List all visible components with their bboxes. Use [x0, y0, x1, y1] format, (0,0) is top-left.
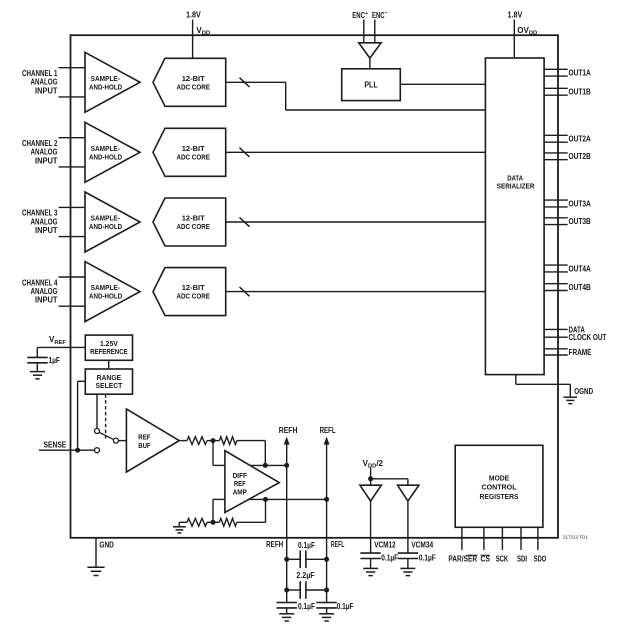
switch throw contact sense — [95, 448, 100, 453]
wire ground to R3 — [179, 521, 187, 523]
capacitor 0.1uF REFL to gnd — [316, 603, 336, 608]
wire ENC+ down — [363, 20, 365, 43]
MODE CONTROL REGISTERS box — [455, 445, 543, 527]
svg-text:CHANNEL 4: CHANNEL 4 — [22, 278, 58, 287]
wire GND — [95, 538, 97, 567]
svg-text:ENC: ENC — [352, 11, 365, 20]
bus slash ch1 — [240, 78, 250, 87]
RANGE SELECT box — [85, 369, 132, 394]
junction feedback/upper out — [263, 463, 268, 468]
capacitor 0.1uF VCM12 — [360, 553, 380, 558]
svg-text:INPUT: INPUT — [35, 86, 58, 95]
buffer VCM34 triangle — [398, 485, 419, 501]
switch pole contact — [113, 438, 118, 443]
wire SENSE — [39, 449, 95, 451]
wire FRAME- — [544, 354, 568, 356]
sample-and-hold amp triangle ch4 — [85, 262, 140, 322]
wire cap to ground — [36, 363, 38, 372]
ground 1uF — [30, 372, 45, 379]
svg-text:ADC CORE: ADC CORE — [177, 222, 210, 231]
resistor R3 — [187, 518, 207, 526]
switch throw contact — [95, 429, 100, 434]
wire VDD down to ADC core 1 — [192, 20, 194, 59]
wire ref buf out — [179, 440, 187, 442]
sample-and-hold amp triangle ch2 — [85, 122, 140, 182]
wire cap2 to REFL — [306, 589, 327, 591]
bus slash ch2 — [240, 148, 250, 157]
wire REFH to cap2 — [287, 589, 301, 591]
wire ch1 to serializer — [286, 109, 486, 111]
wire ch4 core out to serializer — [226, 291, 486, 293]
svg-text:VCM34: VCM34 — [411, 541, 433, 550]
wire to 1uF cap — [36, 347, 38, 357]
junction R1/R2 — [211, 438, 216, 443]
svg-text:BUF: BUF — [138, 441, 151, 450]
svg-text:0.1µF: 0.1µF — [337, 602, 354, 611]
svg-text:INPUT: INPUT — [35, 296, 58, 305]
wire OGND drop — [569, 384, 571, 397]
wire OUT1B- — [544, 94, 568, 96]
wire feedback down — [264, 441, 266, 466]
wire ch1 input+ — [59, 67, 86, 69]
svg-text:2.2µF: 2.2µF — [296, 571, 314, 580]
wire ch4 input+ — [59, 276, 86, 278]
overline CS — [481, 554, 491, 556]
svg-text:REFH: REFH — [279, 426, 298, 435]
svg-text:INPUT: INPUT — [35, 226, 58, 235]
sample-and-hold amp triangle ch1 — [85, 52, 140, 112]
resistor R1 — [187, 437, 207, 445]
wire register pin x=483.9 — [483, 527, 485, 550]
svg-text:+: + — [365, 11, 368, 17]
svg-text:SENSE: SENSE — [44, 441, 67, 450]
ground VCM12 — [363, 568, 378, 575]
svg-text:0.1µF: 0.1µF — [381, 554, 398, 563]
ground GND pin — [87, 567, 104, 575]
12-bit ADC core block ch4 — [153, 268, 226, 316]
junction sense node — [75, 448, 80, 453]
wire OUT4A- — [544, 271, 568, 273]
svg-text:CONTROL: CONTROL — [481, 482, 516, 491]
ground resistor string — [173, 527, 186, 533]
svg-text:CLOCK OUT: CLOCK OUT — [569, 333, 607, 342]
wire down to sense node — [77, 381, 79, 450]
svg-text:INPUT: INPUT — [35, 156, 58, 165]
junction REFL — [324, 497, 329, 502]
svg-text:SERIALIZER: SERIALIZER — [497, 182, 535, 191]
wire OGND horizontal — [516, 383, 571, 385]
wire R3-R4 — [207, 521, 219, 523]
svg-text:SDI: SDI — [517, 555, 527, 564]
wire OUT3A- — [544, 206, 568, 208]
wire ch4 input- — [59, 305, 86, 307]
wire diff amp lower out — [249, 498, 327, 500]
svg-text:REFL: REFL — [320, 426, 336, 435]
svg-text:REFERENCE: REFERENCE — [90, 347, 128, 356]
svg-text:OUT4A: OUT4A — [569, 264, 591, 273]
wire serializer to OGND — [515, 375, 517, 385]
12-bit ADC core block ch2 — [153, 128, 226, 176]
resistor R4 — [219, 518, 236, 526]
wire ENC- down — [374, 20, 376, 43]
svg-text:FRAME: FRAME — [569, 348, 593, 357]
svg-text:OUT2B: OUT2B — [569, 152, 591, 161]
overline SER — [466, 554, 477, 556]
wire VCM34 down — [407, 501, 409, 553]
svg-text:ENC: ENC — [372, 11, 385, 20]
wire OUT3B+ — [544, 217, 568, 219]
wire REFL rail — [326, 443, 328, 603]
svg-text:AND-HOLD: AND-HOLD — [89, 152, 123, 161]
wire buffer to PLL — [369, 58, 371, 69]
svg-text:OUT4B: OUT4B — [569, 283, 591, 292]
svg-text:OUT3A: OUT3A — [569, 199, 591, 208]
wire OUT4B- — [544, 290, 568, 292]
wire register pin x=502.4 — [501, 527, 503, 550]
wire OUT4A+ — [544, 264, 568, 266]
wire diff amp upper out — [251, 464, 287, 466]
wire into diff amp -in — [213, 498, 225, 500]
wire OUT2A+ — [544, 134, 568, 136]
wire reference to range select — [108, 360, 110, 369]
junction lower out — [263, 497, 268, 502]
chip boundary box — [71, 35, 559, 538]
ground REFH cap — [279, 614, 294, 621]
wire range select stub — [78, 380, 86, 382]
svg-text:PLL: PLL — [364, 81, 377, 90]
wire OUT3B- — [544, 224, 568, 226]
PLL box — [342, 69, 401, 101]
buffer VCM12 triangle — [360, 485, 381, 501]
wire register pin x=521.0 — [520, 527, 522, 550]
wire VDD/2 down — [370, 468, 372, 486]
wire OUT2B- — [544, 159, 568, 161]
svg-text:ADC CORE: ADC CORE — [177, 152, 210, 161]
ground REFL cap — [319, 614, 334, 621]
svg-text:SCK: SCK — [496, 555, 509, 564]
wire R1-R2 — [207, 440, 219, 442]
DATA SERIALIZER box — [485, 58, 544, 375]
wire DATA — [544, 328, 568, 330]
wire OUT3A+ — [544, 199, 568, 201]
wire ch3 input+ — [59, 206, 86, 208]
wire ch2 input+ — [59, 137, 86, 139]
svg-text:PAR/SER: PAR/SER — [448, 555, 477, 564]
wire ch2 core out to serializer — [226, 151, 486, 153]
wire OUT1A+ — [544, 68, 568, 70]
svg-text:CS: CS — [481, 555, 491, 564]
capacitor 0.1uF VCM34 — [398, 553, 418, 558]
op-amp REF BUF — [126, 409, 179, 472]
sample-and-hold amp triangle ch3 — [85, 192, 140, 252]
junction REFH — [284, 463, 289, 468]
wire OUT1B+ — [544, 87, 568, 89]
bus slash ch4 — [240, 287, 250, 296]
wire into diff amp +in — [213, 464, 225, 466]
svg-text:217212 F01: 217212 F01 — [563, 535, 588, 540]
dashed control line — [105, 394, 107, 438]
wire VCM12 down — [370, 501, 372, 553]
svg-text:AMP: AMP — [233, 488, 247, 497]
wire ch1 input- — [59, 96, 86, 98]
wire tap down to diff amp +in — [212, 441, 214, 466]
ground OGND — [564, 397, 578, 404]
svg-text:REGISTERS: REGISTERS — [479, 492, 518, 501]
wire REFH rail — [286, 443, 288, 603]
svg-text:OUT1B: OUT1B — [569, 88, 591, 97]
wire R2 out — [237, 440, 265, 442]
wire VDD/2 across — [371, 478, 408, 480]
bus slash ch3 — [240, 217, 250, 226]
svg-text:REFL: REFL — [331, 540, 345, 549]
wire lower tap up — [212, 499, 214, 522]
svg-text:OGND: OGND — [574, 387, 593, 396]
resistor R2 — [219, 437, 236, 445]
wire ch3 input- — [59, 236, 86, 238]
wire switch to ref buf — [118, 440, 126, 442]
svg-text:CHANNEL 1: CHANNEL 1 — [22, 69, 58, 78]
svg-text:AND-HOLD: AND-HOLD — [89, 82, 123, 91]
node REFL arrow — [324, 437, 330, 445]
svg-text:OUT1A: OUT1A — [569, 69, 591, 78]
svg-text:VCM12: VCM12 — [374, 541, 396, 550]
svg-text:OUT2A: OUT2A — [569, 135, 591, 144]
wire OUT4B+ — [544, 283, 568, 285]
svg-text:ADC CORE: ADC CORE — [177, 292, 210, 301]
wire register pin x=537.9 — [537, 527, 539, 550]
wire OVDD down to serializer — [513, 20, 515, 59]
svg-text:AND-HOLD: AND-HOLD — [89, 292, 123, 301]
svg-text:1µF: 1µF — [49, 356, 60, 365]
svg-text:AND-HOLD: AND-HOLD — [89, 222, 123, 231]
wire OUT2A- — [544, 141, 568, 143]
node REFH arrow — [284, 437, 290, 445]
wire ch1 step down — [285, 82, 287, 110]
svg-text:0.1µF: 0.1µF — [419, 554, 436, 563]
wire register pin x=461.9 — [461, 527, 463, 550]
svg-text:CHANNEL 3: CHANNEL 3 — [22, 209, 58, 218]
capacitor 1uF — [27, 357, 47, 362]
junction R3/R4 — [211, 520, 216, 525]
wire CLOCK OUT — [544, 336, 568, 338]
svg-text:1.8V: 1.8V — [508, 11, 523, 20]
wire R4 out — [237, 521, 266, 523]
svg-text:REFH: REFH — [266, 540, 283, 549]
op-amp DIFF REF AMP — [225, 451, 279, 513]
wire range select to switch throw — [96, 394, 98, 428]
12-bit ADC core block ch3 — [153, 198, 226, 246]
12-bit ADC core block ch1 — [153, 58, 226, 106]
svg-text:MODE: MODE — [489, 473, 509, 482]
capacitor 0.1uF REFH to gnd — [277, 603, 297, 608]
wire ground drop — [178, 522, 180, 526]
wire ch1 core out — [226, 81, 286, 83]
wire cap1 to REFL — [306, 558, 327, 560]
svg-text:CHANNEL 2: CHANNEL 2 — [22, 139, 58, 148]
wire OUT1A- — [544, 75, 568, 77]
capacitor 2.2uF REFH-REFL — [300, 581, 306, 599]
svg-text:ADC CORE: ADC CORE — [177, 82, 210, 91]
ground VCM34 — [400, 568, 415, 575]
svg-text:OUT3B: OUT3B — [569, 217, 591, 226]
svg-text:SDO: SDO — [534, 555, 547, 564]
wire lower feedback down — [265, 499, 267, 522]
capacitor 0.1uF REFH-REFL — [300, 551, 306, 569]
1.25V REFERENCE box — [85, 335, 132, 360]
wire OUT2B+ — [544, 152, 568, 154]
wire to right buffer — [407, 479, 409, 485]
svg-text:SELECT: SELECT — [96, 381, 123, 390]
svg-text:1.8V: 1.8V — [186, 11, 201, 20]
svg-text:0.1µF: 0.1µF — [298, 541, 315, 550]
wire PLL to serializer — [400, 83, 485, 85]
clock input buffer triangle — [359, 43, 381, 58]
wire ch3 core out to serializer — [226, 221, 486, 223]
wire REFH to cap1 — [287, 558, 301, 560]
wire VREF — [37, 346, 85, 348]
svg-text:GND: GND — [99, 541, 114, 550]
svg-text:–: – — [385, 10, 388, 16]
switch arm — [99, 432, 114, 439]
svg-text:0.1µF: 0.1µF — [298, 602, 315, 611]
wire FRAME+ — [544, 348, 568, 350]
junction VDD/2 — [368, 476, 373, 481]
wire ch2 input- — [59, 166, 86, 168]
